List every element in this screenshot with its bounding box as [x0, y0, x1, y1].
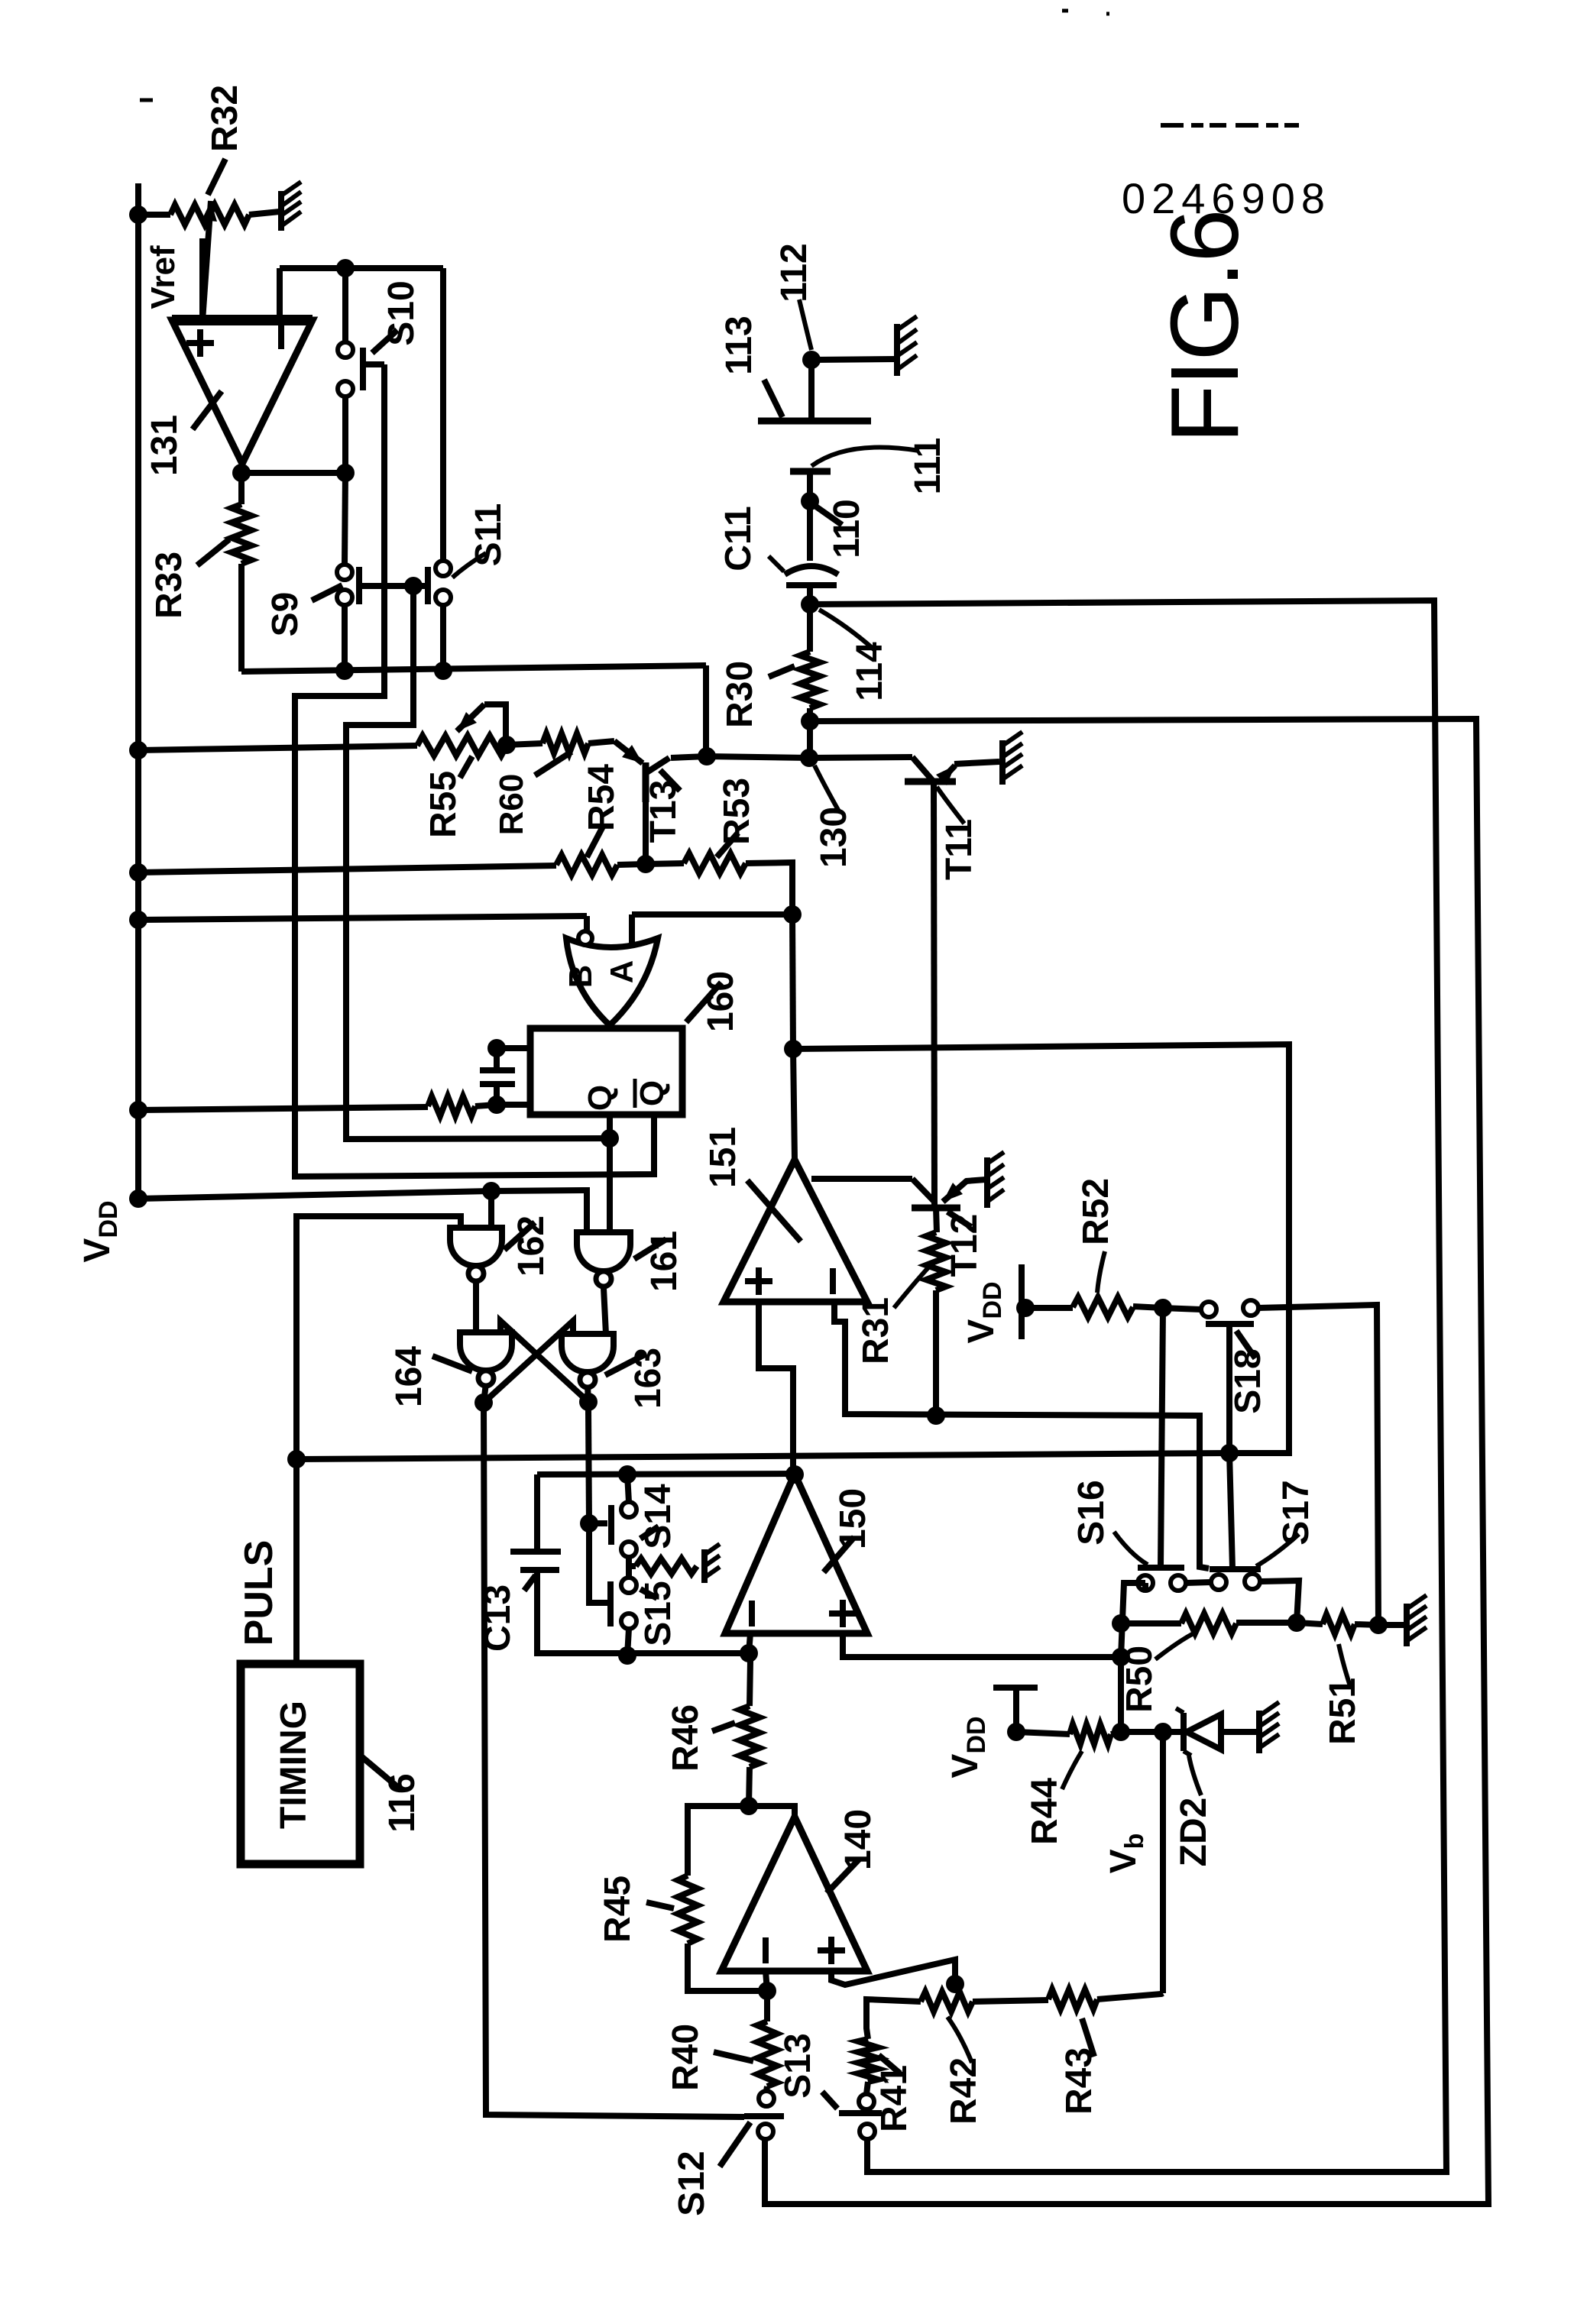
svg-text:R50: R50: [1119, 1646, 1160, 1713]
svg-text:C13: C13: [478, 1584, 518, 1652]
svg-text:114: 114: [850, 642, 890, 701]
svg-text:S9: S9: [265, 592, 306, 637]
svg-text:T11: T11: [939, 819, 980, 880]
svg-text:151: 151: [703, 1127, 743, 1188]
svg-text:C11: C11: [718, 506, 759, 571]
svg-text:FIG.6: FIG.6: [1151, 210, 1258, 443]
svg-text:R43: R43: [1059, 2047, 1100, 2115]
svg-text:TIMING: TIMING: [274, 1701, 314, 1829]
svg-text:S16: S16: [1071, 1480, 1112, 1545]
svg-text:R44: R44: [1025, 1778, 1065, 1845]
svg-text:131: 131: [144, 415, 185, 476]
svg-text:R42: R42: [944, 2057, 984, 2125]
svg-text:R40: R40: [666, 2024, 706, 2091]
svg-text:R32: R32: [205, 85, 245, 152]
svg-text:R31: R31: [856, 1297, 896, 1364]
svg-text:113: 113: [719, 316, 759, 374]
svg-text:B: B: [562, 965, 598, 988]
svg-text:R51: R51: [1323, 1678, 1363, 1745]
svg-text:Q: Q: [581, 1085, 619, 1111]
svg-text:R41: R41: [874, 2065, 915, 2132]
svg-text:PULS: PULS: [237, 1540, 281, 1646]
svg-text:R46: R46: [666, 1704, 706, 1772]
svg-text:110: 110: [827, 499, 867, 558]
svg-text:111: 111: [908, 438, 948, 495]
svg-text:112: 112: [774, 243, 815, 302]
svg-text:Q: Q: [633, 1080, 671, 1106]
svg-text:130: 130: [814, 807, 854, 868]
svg-text:S18: S18: [1228, 1348, 1268, 1413]
svg-text:S12: S12: [672, 2151, 712, 2216]
svg-text:R52: R52: [1076, 1178, 1116, 1245]
svg-text:164: 164: [389, 1346, 429, 1407]
svg-text:R33: R33: [149, 552, 189, 619]
svg-text:S11: S11: [468, 503, 509, 567]
svg-text:R60: R60: [493, 774, 530, 836]
svg-text:R30: R30: [720, 661, 760, 728]
svg-text:R54: R54: [581, 764, 622, 831]
svg-text:R45: R45: [598, 1876, 638, 1943]
svg-text:Vref: Vref: [144, 245, 182, 309]
svg-text:S13: S13: [778, 2033, 818, 2098]
svg-text:ZD2: ZD2: [1174, 1798, 1214, 1867]
svg-text:R55: R55: [423, 771, 464, 838]
svg-text:A: A: [604, 960, 640, 983]
